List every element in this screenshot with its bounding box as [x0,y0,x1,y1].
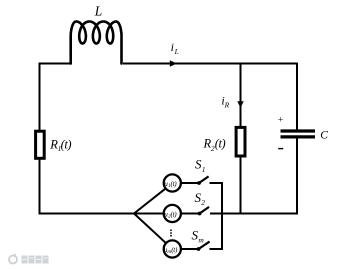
wire top-left horizontal [40,63,71,65]
wire S1 to bus [210,182,223,184]
inductor L [71,22,122,64]
wire bottom right (S2 to right wire) [210,213,297,215]
resistor R1 [36,131,45,158]
svg-text:(t): (t) [215,137,226,151]
resistor R2 [236,127,245,156]
arrow iR [237,101,243,108]
capacitor C top plate [281,129,316,132]
wire left vertical lower [39,160,41,214]
wire Sm to bus [210,248,223,250]
vertical ellipsis [170,229,172,231]
svg-text:1: 1 [202,165,206,174]
wire u1 to S1 [181,182,199,184]
switch S2 [198,212,202,216]
wire top horizontal right of inductor [123,63,297,65]
wire bottom left [39,213,135,215]
source um(t) [164,240,181,257]
svg-text:(t): (t) [171,210,178,218]
source u2(t) [164,205,181,222]
svg-text:L: L [174,47,179,56]
wire left vertical upper [39,63,41,132]
wire right vertical lower [296,139,298,215]
svg-text:(t): (t) [61,137,72,151]
svg-text:C: C [320,129,328,141]
watermark [9,255,49,264]
svg-text:L: L [94,3,103,18]
svg-text:m: m [198,235,204,244]
wire switch bus vertical [221,182,223,250]
capacitor C bottom plate [281,135,316,138]
arrow iL [170,60,177,67]
svg-text:+: + [277,116,283,126]
label minus [278,148,283,150]
switch S1 [197,181,201,185]
svg-text:2: 2 [201,198,205,207]
wire fan to u2 [134,213,164,215]
svg-text:(t): (t) [171,246,178,254]
wire um to Sm [181,248,199,250]
wire R2 branch lower [240,156,242,214]
wire u2 to S2 [181,213,200,215]
wire R2 branch upper [240,63,242,128]
svg-text:R: R [224,100,230,109]
wire fan to u1 [134,188,166,213]
switch Sm [197,247,201,251]
source u1(t) [164,174,181,191]
svg-text:i: i [171,40,174,54]
svg-text:(t): (t) [171,180,178,188]
wire right vertical upper [296,63,298,130]
wire fan to um [134,214,166,244]
